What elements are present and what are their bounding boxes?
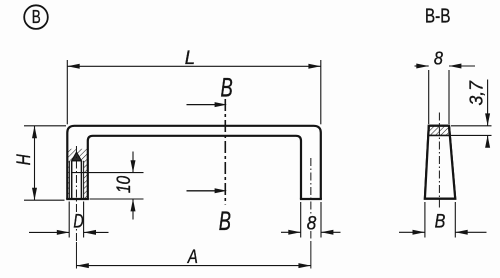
svg-text:B: B <box>435 210 446 232</box>
svg-text:8: 8 <box>434 47 443 68</box>
svg-text:L: L <box>185 48 195 70</box>
svg-text:B: B <box>32 7 41 28</box>
svg-text:A: A <box>187 245 198 267</box>
svg-text:H: H <box>12 154 34 165</box>
svg-text:B: B <box>219 205 231 235</box>
svg-text:B: B <box>220 72 232 102</box>
svg-text:3,7: 3,7 <box>466 80 487 105</box>
svg-text:10: 10 <box>112 176 134 194</box>
svg-text:B-B: B-B <box>425 5 451 28</box>
svg-text:8: 8 <box>307 212 317 234</box>
svg-text:D: D <box>73 211 83 232</box>
